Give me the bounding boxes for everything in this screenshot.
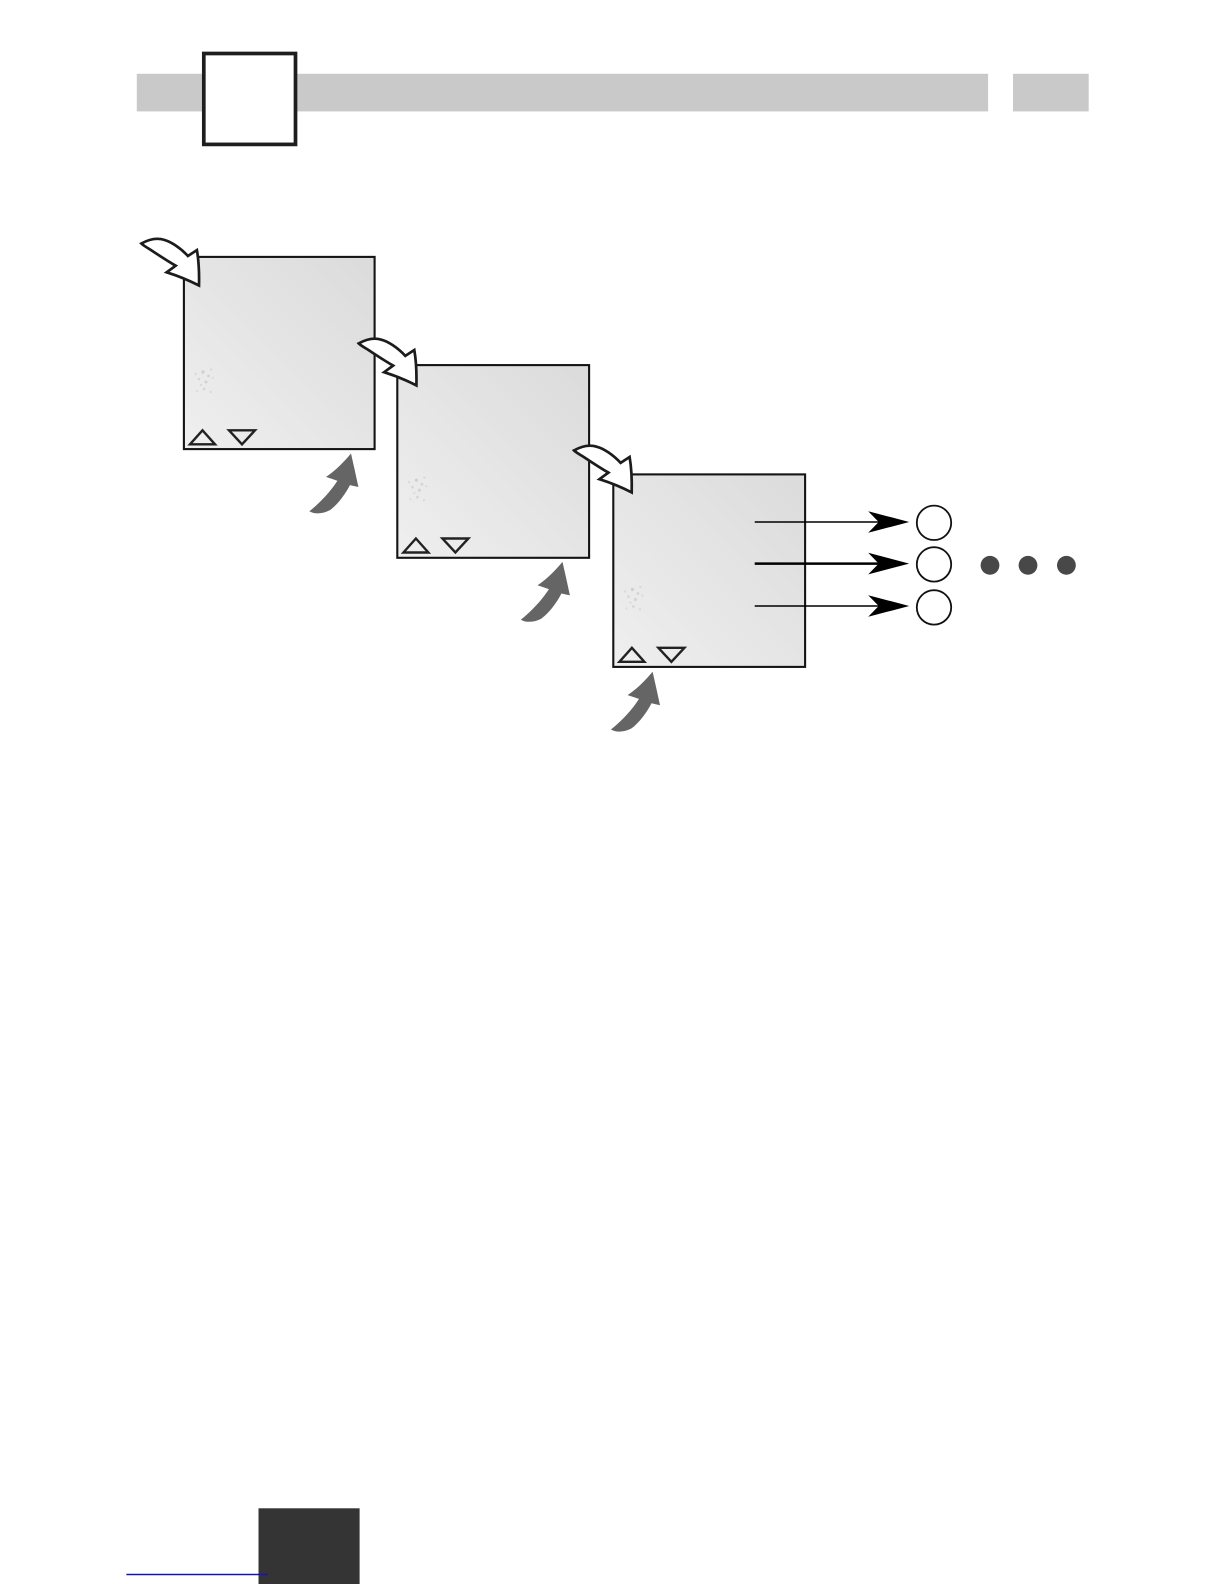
- footer blue rule: [126, 1574, 268, 1576]
- screen panel 2: [397, 365, 589, 558]
- panel 1 faint print smudge: [194, 368, 214, 393]
- header bar (long gray): [137, 74, 988, 112]
- chapter number box (white square, black border): [204, 54, 296, 145]
- gray curved arrow under panel 3: [611, 672, 660, 732]
- gray curved arrow under panel 1: [309, 454, 358, 514]
- white curved arrow into panel 2: [359, 339, 417, 386]
- panel 2 faint print smudge: [408, 477, 428, 502]
- header bar (short gray, right): [1013, 74, 1089, 112]
- output wire 1: [755, 521, 880, 523]
- output arrowhead 1: [868, 511, 909, 533]
- panel 3 down-arrow key: [658, 648, 684, 662]
- ellipsis dot 1: [981, 556, 1000, 575]
- panel 1 down-arrow key: [229, 430, 255, 444]
- panel 2 down-arrow key: [442, 539, 468, 553]
- terminal circle 1: [917, 506, 951, 540]
- output wire 3: [755, 605, 880, 607]
- output arrowhead 3: [868, 595, 909, 617]
- gray curved arrow under panel 2: [521, 562, 570, 622]
- white curved arrow into panel 3: [574, 446, 632, 493]
- panel 3 up-arrow key: [619, 648, 644, 662]
- terminal circle 3: [917, 590, 951, 624]
- footer page-number block (dark): [259, 1508, 360, 1584]
- screen panel 1: [184, 257, 375, 449]
- ellipsis dot 2: [1019, 556, 1038, 575]
- output arrowhead 2: [868, 553, 909, 575]
- panel 2 up-arrow key: [403, 539, 428, 553]
- panel 1 up-arrow key: [190, 430, 215, 444]
- white curved arrow into panel 1: [141, 239, 199, 286]
- output wire 2 (thick): [755, 562, 880, 565]
- ellipsis dot 3: [1057, 556, 1076, 575]
- screen panel 3: [613, 474, 805, 667]
- terminal circle 2: [917, 547, 951, 581]
- panel 3 faint print smudge: [624, 586, 644, 611]
